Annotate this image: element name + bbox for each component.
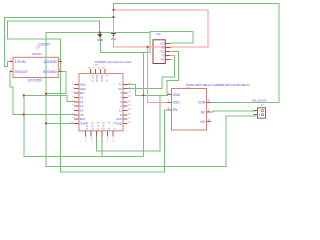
wire relay GND row [136, 94, 172, 97]
wire GND horizontal through GND symbol [46, 32, 150, 34]
svg-text:NC: NC [201, 110, 206, 114]
svg-text:16: 16 [80, 96, 84, 100]
right pins [123, 84, 128, 123]
svg-text:12VIN: 12VIN [15, 59, 26, 64]
component J1 EM_DOOR connector [252, 99, 266, 119]
svg-text:NO: NO [201, 120, 206, 124]
svg-text:BAT: BAT [80, 117, 86, 121]
wire pink relay VDD [148, 47, 168, 103]
wire pink mic pin5 stub [170, 59, 172, 61]
component U2 ESP8266 development board [71, 60, 132, 142]
wire ESP bottom pin2 to GND rail [101, 137, 103, 157]
svg-text:12GND: 12GND [43, 59, 56, 64]
svg-text:RX: RX [161, 59, 165, 62]
wire red VCC vertical [113, 10, 115, 34]
svg-text:GND: GND [173, 93, 181, 97]
svg-text:5VOUT: 5VOUT [15, 69, 29, 74]
wire pink mic pin4 lead [170, 55, 175, 57]
wire net B: inner corner to GND junction, 12GND branch down to EN bottom rail [8, 21, 168, 172]
wire pink VCC distribution loop [114, 10, 208, 103]
junction dots [23, 9, 149, 125]
svg-text:12Vto5V: 12Vto5V [38, 42, 51, 46]
wire ESP bottom pin1 loop to right column [96, 95, 160, 151]
wire 12VIN feed from VCC rail [5, 18, 114, 67]
svg-text:13: 13 [80, 109, 84, 113]
wire 5V net: 5VOUT down then to ESP VV pin [10, 72, 74, 115]
bottom pins [86, 131, 113, 137]
wire pink mic pin2 jog [170, 46, 172, 49]
svg-text:U?: U? [36, 45, 40, 49]
wire pink mic pin3 lead [170, 51, 172, 53]
svg-text:BASIC SPDT RELAY CARRIER WITH: BASIC SPDT RELAY CARRIER WITH 12VDC RELA… [187, 83, 251, 87]
component U4 relay carrier [168, 83, 251, 130]
left pins [74, 84, 79, 123]
power flag VCC [111, 34, 117, 41]
wire relay NC to EM_DOOR pin1 [211, 111, 258, 113]
ground symbol GND [97, 33, 103, 42]
svg-text:mic: mic [156, 32, 161, 36]
component U3 mic module pins and labels [156, 32, 170, 62]
wire mic pin1 loop [150, 32, 193, 53]
svg-text:VCC: VCC [159, 51, 164, 54]
svg-text:COM: COM [198, 101, 206, 105]
svg-text:EM_DOOR: EM_DOOR [252, 99, 266, 103]
svg-text:EN: EN [173, 108, 178, 112]
component U1 12Vto5V module [10, 42, 63, 82]
top pins [91, 69, 106, 74]
svg-text:DiO: DiO [160, 43, 164, 46]
wire mic pin4 green chain to ESP Rx [128, 56, 175, 89]
svg-text:TX: TX [161, 55, 164, 58]
svg-text:ESP8266_Development board: ESP8266_Development board [95, 60, 132, 64]
wire GND sym down and right to mic column [101, 33, 151, 53]
svg-text:Rx: Rx [118, 87, 122, 91]
wire GND left long vertical to EM_DOOR pin2 [46, 33, 258, 167]
wire GND mid vertical down to bottom rail [24, 53, 144, 157]
svg-text:5V: 5V [161, 47, 164, 50]
svg-text:GND: GND [97, 38, 103, 42]
svg-text:11: 11 [119, 109, 122, 113]
svg-text:12VTO5V: 12VTO5V [27, 78, 43, 82]
svg-text:LDO: LDO [116, 117, 123, 121]
svg-text:VDD: VDD [173, 101, 180, 105]
component U3 mic module box (under wires) [153, 40, 165, 64]
wire ESP left GPIO row [24, 95, 74, 101]
component U1 12Vto5V box (under wires) [13, 57, 58, 77]
svg-text:GND: GND [116, 122, 122, 126]
wire VCC green drop to red junction [113, 4, 115, 11]
svg-text:ADC: ADC [80, 87, 86, 91]
wire ESP left pin10 GND to GND vertical [46, 122, 74, 124]
wire VCC top rail to relay COM [114, 4, 280, 103]
wire ESP Tx branch [128, 84, 136, 95]
svg-text:VCC: VCC [111, 37, 117, 41]
wire mic pin3 green chain to relay GND row [167, 52, 179, 96]
svg-text:12Vto5V: 12Vto5V [32, 52, 43, 56]
wire 5VGND loop [46, 72, 66, 94]
svg-text:5VGND: 5VGND [43, 69, 57, 74]
